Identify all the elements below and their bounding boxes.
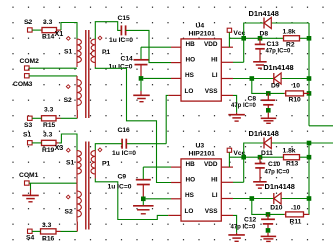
junction: [241, 36, 246, 41]
svg-text:VDD: VDD: [204, 41, 218, 48]
wire: [61, 23, 77, 40]
svg-text:3.3: 3.3: [43, 132, 53, 139]
pin marker diamond: [98, 148, 102, 152]
wire: [233, 198, 252, 200]
svg-text:HI: HI: [211, 56, 218, 63]
svg-text:3.3: 3.3: [44, 107, 54, 114]
wire: [29, 67, 77, 69]
junction: [266, 91, 271, 96]
svg-text:HB: HB: [186, 161, 196, 168]
svg-text:COM3: COM3: [13, 81, 33, 88]
svg-text:10: 10: [293, 205, 301, 212]
svg-text:D11: D11: [261, 150, 273, 157]
resistor R13 1.8k: [283, 148, 300, 168]
svg-text:X1: X1: [55, 29, 64, 38]
capacitor C14 1u: [109, 56, 149, 71]
wire: [29, 182, 77, 184]
wire: [252, 78, 274, 80]
pin LO: [168, 208, 193, 216]
wire: [233, 78, 252, 80]
capacitor C15 1u: [109, 15, 133, 44]
junction: [266, 212, 271, 217]
wire: [228, 153, 230, 168]
resistor R14 3.3: [41, 19, 62, 40]
transformer X3 core: [86, 142, 89, 230]
junction: [307, 141, 312, 146]
junction: [258, 36, 263, 41]
port COM2: [20, 58, 40, 70]
op-amp U3 HIP2101 box: [181, 142, 221, 221]
svg-text:S4: S4: [26, 234, 34, 241]
pin marker diamond: [98, 36, 102, 40]
transformer X3 winding S1: [66, 151, 81, 179]
wire: [244, 23, 264, 62]
svg-text:1u IC=0: 1u IC=0: [109, 37, 133, 44]
resistor R15 3.3: [32, 107, 60, 130]
wire: [141, 46, 171, 48]
pin marker diamond: [66, 85, 70, 89]
svg-text:P1: P1: [102, 161, 110, 168]
pin HO: [171, 177, 195, 184]
svg-text:HO: HO: [186, 177, 196, 184]
svg-text:C9: C9: [118, 174, 127, 181]
transformer X3 winding S2: [65, 191, 82, 222]
svg-text:S2: S2: [64, 97, 72, 104]
pin HB: [171, 41, 195, 48]
junction: [307, 76, 312, 81]
port S3: [24, 116, 32, 129]
wire: [95, 22, 121, 39]
wire: [126, 30, 171, 62]
svg-text:D1n4148: D1n4148: [265, 182, 295, 191]
wire: [76, 110, 78, 118]
svg-text:LI: LI: [212, 72, 218, 79]
pin HS: [171, 72, 195, 79]
pin VDD: [204, 161, 233, 168]
wire: [140, 47, 142, 59]
pin VSS: [205, 208, 233, 216]
capacitor C9 1u: [108, 174, 151, 191]
wire: [142, 185, 144, 199]
junction: [307, 91, 312, 96]
transformer X1 winding P1: [91, 39, 111, 67]
wire: [233, 61, 244, 63]
svg-text:HIP2101: HIP2101: [189, 30, 216, 37]
resistor R2 1.8k: [283, 29, 300, 49]
wire: [233, 95, 237, 112]
wire: [228, 33, 230, 48]
transformer X3 winding P1: [91, 151, 111, 179]
wire: [259, 38, 261, 44]
svg-text:1u IC=0: 1u IC=0: [112, 150, 136, 157]
wire: [76, 183, 78, 191]
svg-text:LI: LI: [212, 192, 218, 199]
svg-text:LO: LO: [185, 208, 194, 215]
pin LI: [212, 72, 233, 79]
svg-text:U4: U4: [196, 22, 205, 29]
wire: [259, 157, 261, 163]
svg-text:R10: R10: [289, 97, 302, 104]
wire: [267, 113, 269, 119]
svg-text:S3: S3: [24, 122, 32, 129]
ground: [261, 118, 277, 123]
svg-text:LO: LO: [185, 88, 194, 95]
wire: [252, 79, 284, 94]
wire: [267, 224, 269, 228]
pin HB: [171, 161, 195, 168]
svg-text:S1: S1: [64, 49, 72, 56]
resistor R16 3.3: [32, 222, 60, 243]
svg-text:VSS: VSS: [205, 88, 219, 95]
wire: [140, 91, 142, 95]
capacitor C8 47p: [231, 95, 275, 109]
wire: [143, 166, 171, 168]
svg-text:VSS: VSS: [205, 208, 219, 215]
svg-text:47p IC=0: 47p IC=0: [265, 169, 291, 175]
svg-text:C14: C14: [121, 56, 134, 63]
junction: [258, 155, 263, 160]
diode D8 D1n4148: [249, 9, 279, 38]
port Vcc: [227, 148, 245, 157]
wire: [76, 222, 78, 232]
wire: [271, 22, 309, 24]
svg-text:COM2: COM2: [20, 58, 40, 65]
wire: [271, 142, 333, 144]
wire: [267, 105, 269, 108]
svg-text:R16: R16: [42, 236, 55, 243]
label X1: [55, 29, 64, 38]
svg-text:HI: HI: [211, 176, 218, 183]
svg-text:S1: S1: [66, 160, 74, 167]
junction: [266, 108, 271, 113]
svg-text:3.3: 3.3: [42, 222, 52, 229]
ground: [261, 236, 277, 241]
capacitor C12 47p: [231, 217, 275, 231]
wire: [229, 156, 283, 158]
wire: [309, 125, 333, 127]
junction: [241, 155, 246, 160]
transformer X1 core: [86, 30, 89, 118]
wire: [244, 143, 264, 182]
wire: [157, 143, 167, 145]
pin VSS: [205, 88, 233, 96]
svg-text:R14: R14: [42, 34, 55, 41]
svg-text:1u IC=0: 1u IC=0: [109, 64, 133, 71]
wire: [142, 201, 144, 206]
svg-text:1.8k: 1.8k: [283, 29, 296, 36]
svg-text:C16: C16: [118, 127, 131, 134]
svg-text:C8: C8: [248, 95, 257, 102]
svg-text:D10: D10: [270, 205, 283, 212]
ground: [253, 182, 267, 188]
svg-text:47p IC=0: 47p IC=0: [231, 224, 257, 230]
svg-text:C15: C15: [118, 15, 131, 22]
diode D10 D1n4148: [265, 182, 295, 212]
wire: [32, 29, 40, 31]
label X3: [55, 143, 64, 152]
junction: [307, 36, 312, 41]
resistor R19 3.3: [32, 132, 59, 154]
wire: [259, 168, 261, 182]
wire: [267, 233, 269, 237]
svg-text:P1: P1: [102, 49, 110, 56]
resistor R10 10: [284, 83, 309, 104]
pin HI: [211, 56, 233, 63]
port S4: [26, 229, 34, 241]
pin VDD: [204, 41, 233, 48]
svg-text:X3: X3: [55, 143, 64, 152]
pin marker diamond: [66, 195, 70, 199]
pin LI: [212, 192, 233, 199]
svg-text:D1n4148: D1n4148: [263, 63, 293, 72]
svg-text:R2: R2: [286, 41, 295, 48]
wire: [281, 78, 309, 80]
svg-text:R15: R15: [43, 122, 56, 129]
port Vcc: [227, 28, 245, 37]
junction: [250, 76, 255, 81]
svg-text:R19: R19: [42, 147, 55, 154]
svg-text:D1n4148: D1n4148: [249, 129, 279, 138]
wire: [95, 179, 168, 220]
port COM1: [19, 172, 39, 185]
svg-text:C13: C13: [267, 41, 280, 48]
svg-text:S1: S1: [23, 132, 31, 139]
capacitor C16 1u: [112, 127, 136, 157]
wire: [61, 117, 78, 119]
wire: [142, 167, 144, 179]
wire: [267, 214, 269, 219]
op-amp U4 HIP2101 box: [181, 22, 221, 101]
junction: [266, 228, 271, 233]
svg-text:HO: HO: [186, 57, 196, 64]
ground: [253, 62, 267, 68]
ground: [228, 115, 245, 121]
svg-text:47p IC=0: 47p IC=0: [231, 103, 257, 109]
wire: [233, 215, 237, 233]
wire: [229, 37, 283, 39]
svg-text:D9: D9: [271, 82, 280, 89]
wire: [236, 113, 238, 115]
svg-text:D1n4148: D1n4148: [249, 9, 279, 18]
ground: [133, 206, 154, 214]
svg-text:10: 10: [293, 83, 301, 90]
svg-text:HS: HS: [185, 192, 195, 199]
port S1: [23, 132, 32, 145]
capacitor C13 47p: [255, 41, 291, 54]
svg-text:3.3: 3.3: [43, 19, 53, 26]
wire: [76, 179, 78, 184]
svg-text:HIP2101: HIP2101: [189, 150, 216, 157]
wire: [281, 198, 309, 200]
wire: [95, 67, 156, 144]
wire: [267, 93, 269, 100]
junction: [141, 197, 146, 202]
pin HI: [211, 176, 233, 183]
ground: [228, 235, 245, 241]
svg-text:COM1: COM1: [19, 172, 39, 179]
wire: [157, 144, 172, 183]
wire: [95, 144, 122, 151]
pin HS: [171, 192, 195, 199]
wire: [166, 95, 168, 143]
wire: [76, 76, 78, 80]
svg-text:HB: HB: [186, 41, 196, 48]
wire: [143, 77, 171, 79]
junction: [307, 155, 312, 160]
wire: [30, 183, 32, 189]
svg-text:47p IC=0: 47p IC=0: [266, 48, 292, 54]
port COM3: [13, 74, 33, 88]
pin HO: [171, 57, 195, 64]
svg-text:HS: HS: [185, 72, 195, 79]
svg-text:U3: U3: [196, 142, 205, 149]
transformer X1 winding S1: [64, 39, 81, 67]
junction: [307, 196, 312, 201]
capacitor C10 47p: [255, 161, 290, 176]
svg-text:VDD: VDD: [204, 161, 218, 168]
svg-text:R13: R13: [286, 161, 299, 168]
svg-text:S2: S2: [65, 209, 73, 216]
wire: [300, 37, 310, 39]
svg-text:D8: D8: [260, 31, 269, 38]
wire: [61, 230, 78, 232]
wire: [300, 156, 310, 158]
wire: [29, 75, 77, 77]
pin marker diamond: [66, 148, 70, 152]
ground: [133, 95, 150, 101]
port S2: [24, 19, 32, 32]
pin LO: [168, 88, 193, 96]
wire: [146, 198, 171, 200]
ground: [22, 195, 39, 201]
wire: [140, 81, 142, 91]
pin marker diamond: [66, 37, 70, 41]
wire: [236, 233, 238, 235]
wire: [30, 190, 32, 196]
diode D11 D1n4148: [249, 129, 279, 157]
svg-text:1.8k: 1.8k: [283, 148, 296, 155]
wire: [252, 199, 284, 215]
wire: [308, 23, 310, 126]
svg-text:R11: R11: [290, 219, 302, 226]
junction: [139, 76, 144, 81]
svg-text:C12: C12: [244, 217, 257, 224]
resistor R11 10: [284, 205, 309, 226]
wire: [140, 65, 142, 79]
wire: [308, 143, 310, 215]
svg-text:C10: C10: [268, 161, 281, 168]
svg-text:1u IC=0: 1u IC=0: [108, 184, 132, 191]
wire: [233, 181, 244, 183]
wire: [259, 49, 261, 62]
wire: [59, 134, 77, 151]
wire: [252, 198, 274, 200]
junction: [250, 196, 255, 201]
svg-text:S2: S2: [24, 19, 32, 26]
transformer X1 winding S2: [64, 80, 82, 111]
diode D9 D1n4148: [263, 63, 293, 89]
